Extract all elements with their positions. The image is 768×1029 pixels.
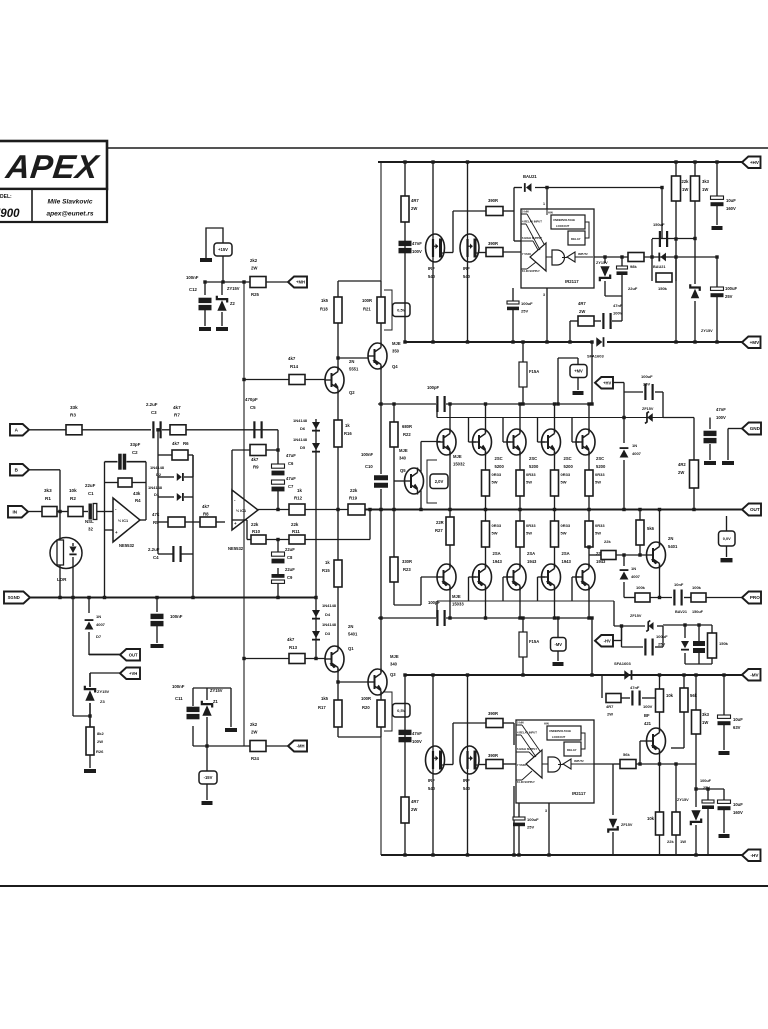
driver MJE15032: [437, 429, 456, 455]
svg-text:D5: D5: [300, 445, 306, 450]
emitter resistor 0R33 top #1: [482, 470, 490, 496]
zener ZY15V right: [691, 289, 700, 299]
IC IR2117 top box: [521, 209, 594, 288]
svg-text:100nF: 100nF: [186, 275, 199, 280]
resistor 3k3 1W bottom: [692, 710, 701, 734]
svg-text:F15A: F15A: [529, 639, 539, 644]
svg-text:LDR: LDR: [57, 577, 67, 582]
svg-text:R16: R16: [344, 431, 352, 436]
zener ZF15V bottom left: [612, 764, 614, 815]
capacitor 100uF 25V bias: [624, 391, 643, 393]
svg-text:ZF15V: ZF15V: [642, 407, 654, 411]
diode D2: [177, 473, 182, 481]
resistor R8: [200, 517, 216, 527]
svg-text:4k7: 4k7: [173, 405, 181, 410]
svg-text:22R: 22R: [436, 520, 444, 525]
svg-text:BAU21: BAU21: [523, 174, 537, 179]
svg-text:10uF: 10uF: [733, 802, 743, 807]
PRO wire: [624, 597, 635, 599]
svg-text:Q1: Q1: [348, 646, 354, 651]
svg-text:HIN: HIN: [544, 722, 549, 726]
capacitor 22uF: [621, 257, 623, 266]
svg-text:5551: 5551: [349, 367, 359, 372]
-HV mini tag: [595, 635, 613, 647]
column 4R7 bottom: [404, 675, 406, 855]
svg-text:25V: 25V: [643, 382, 650, 387]
svg-text:4 RELAY INPUT: 4 RELAY INPUT: [522, 220, 542, 224]
svg-text:47nF: 47nF: [716, 407, 726, 412]
svg-text:1N4148: 1N4148: [150, 465, 165, 470]
-15V box: [206, 746, 208, 771]
wire collector rail to +MV: [591, 342, 593, 404]
+MV rail: [405, 341, 593, 343]
wire minus in: [231, 499, 233, 501]
wire -MH: [193, 745, 250, 747]
svg-text:100pF: 100pF: [427, 385, 440, 390]
capacitor 47nF 100V bottom: [399, 730, 412, 735]
svg-text:2W: 2W: [251, 266, 258, 271]
svg-text:1: 1: [543, 202, 545, 206]
svg-text:IR2117: IR2117: [572, 791, 586, 796]
svg-text:4007: 4007: [631, 574, 641, 579]
feedback wire: [247, 539, 251, 541]
svg-text:R27: R27: [435, 528, 443, 533]
resistor 4R7 2W mid: [570, 320, 578, 322]
wire ladder left: [157, 430, 159, 554]
svg-text:-15V: -15V: [204, 775, 213, 780]
svg-text:33k: 33k: [70, 405, 78, 410]
svg-text:IR2117: IR2117: [565, 279, 579, 284]
wire from SGND to Z3: [73, 715, 90, 717]
diode ladder D6 D5: [315, 419, 317, 598]
svg-text:680R: 680R: [402, 424, 412, 429]
transistor Q1: [325, 646, 344, 672]
svg-text:+HV: +HV: [750, 160, 760, 165]
svg-text:C3: C3: [151, 410, 157, 415]
svg-text:3k3: 3k3: [702, 712, 710, 717]
svg-text:R19: R19: [349, 496, 358, 501]
fuse F15A top: [522, 342, 524, 362]
svg-text:0R33: 0R33: [561, 472, 571, 477]
svg-text:5W: 5W: [595, 531, 601, 536]
resistor 22k 1W lower: [675, 764, 677, 812]
svg-text:1N: 1N: [632, 443, 637, 448]
svg-text:1k5: 1k5: [321, 696, 329, 701]
svg-text:22k: 22k: [682, 179, 690, 184]
svg-text:1N4148: 1N4148: [293, 437, 308, 442]
svg-text:2W: 2W: [97, 739, 103, 744]
resistor 390R lower: [486, 248, 503, 257]
capacitor C1: [89, 504, 92, 520]
capacitor C2: [118, 454, 122, 470]
wire Q5 collector to driver base: [421, 441, 441, 443]
wire Q4 collector down: [380, 366, 382, 405]
svg-text:540: 540: [428, 786, 436, 791]
svg-text:5k6: 5k6: [647, 526, 655, 531]
svg-text:R15: R15: [322, 568, 330, 573]
svg-text:PRO: PRO: [750, 595, 760, 600]
base rail top: [437, 417, 663, 419]
diode SFA1603 bottom: [624, 670, 630, 680]
svg-text:5401: 5401: [668, 544, 678, 549]
svg-text:2,0V: 2,0V: [435, 479, 444, 484]
mosfet IRF540 #2: [467, 162, 469, 234]
svg-text:2N: 2N: [668, 536, 673, 541]
wire ladder right: [192, 455, 194, 598]
svg-text:0R33: 0R33: [492, 523, 502, 528]
resistor 10k lower: [659, 764, 661, 812]
svg-text:22k: 22k: [251, 522, 259, 527]
svg-text:100k: 100k: [636, 585, 646, 590]
svg-text:2.2uF: 2.2uF: [146, 402, 158, 407]
svg-text:R17: R17: [318, 705, 326, 710]
diode D1: [177, 493, 182, 501]
svg-text:R3: R3: [70, 413, 76, 418]
svg-text:56k: 56k: [623, 752, 630, 757]
wire LED cathode: [72, 568, 74, 716]
collector rail top: [378, 403, 436, 405]
capacitor C6: [272, 464, 285, 468]
IC IR2117 bottom box: [516, 720, 594, 803]
svg-text:R11: R11: [292, 529, 300, 534]
capacitor 150uF: [651, 239, 653, 281]
capacitor C12: [204, 282, 206, 295]
svg-text:MODEL:: MODEL:: [0, 194, 12, 200]
svg-text:R6: R6: [183, 441, 189, 446]
svg-text:MJE: MJE: [453, 454, 462, 459]
svg-text:0R33: 0R33: [526, 523, 536, 528]
svg-text:1k: 1k: [325, 560, 330, 565]
svg-text:25V: 25V: [521, 309, 528, 314]
mosfet IRF540 #1: [432, 162, 434, 234]
svg-text:R9: R9: [253, 465, 259, 470]
svg-text:2SA: 2SA: [527, 551, 535, 556]
mosfet IRF540 #3: [432, 675, 434, 746]
svg-text:Mile Slavkovic: Mile Slavkovic: [47, 199, 92, 206]
svg-text:IN: IN: [13, 509, 18, 514]
svg-text:0R33: 0R33: [595, 472, 605, 477]
svg-text:2W: 2W: [411, 807, 417, 812]
resistor R14: [244, 379, 289, 381]
wire bootstrap: [513, 188, 515, 242]
capacitor 100uF 25V bias bottom: [621, 626, 623, 647]
svg-text:0R33: 0R33: [526, 472, 536, 477]
svg-text:100nF: 100nF: [361, 452, 374, 457]
capacitor 150uF bottom: [693, 641, 705, 646]
svg-text:2.2uF: 2.2uF: [148, 547, 160, 552]
svg-text:22k: 22k: [350, 488, 358, 493]
resistor 3k3 1W: [694, 162, 696, 176]
wire BF421 emitter: [659, 712, 661, 732]
op-amp IC1b: [232, 490, 258, 530]
svg-text:C9: C9: [287, 575, 293, 580]
capacitor 100uF 25V right: [716, 257, 718, 287]
svg-text:100k: 100k: [692, 585, 702, 590]
emitter resistor 0R33 top #4: [585, 470, 593, 496]
svg-text:ZY15V: ZY15V: [97, 689, 110, 694]
gate wire upper bottom: [453, 722, 486, 724]
svg-text:R21: R21: [363, 307, 371, 312]
svg-text:UNDERVOLTAGE: UNDERVOLTAGE: [549, 729, 571, 733]
svg-text:R22: R22: [403, 432, 411, 437]
wire: [162, 429, 170, 431]
zener ZY15V bottom: [691, 810, 700, 820]
svg-text:5200: 5200: [529, 464, 539, 469]
rail R18 R21 top: [338, 280, 381, 282]
terminal B: [10, 464, 29, 476]
resistor R10: [251, 535, 266, 544]
svg-text:5W: 5W: [561, 531, 567, 536]
resistor 22k prot: [601, 551, 616, 560]
svg-text:22k: 22k: [667, 839, 674, 844]
resistor 4R2 2W: [693, 418, 695, 461]
svg-text:150uF: 150uF: [692, 610, 704, 614]
resistor 150k: [656, 273, 672, 282]
resistor 4R7 2W: [401, 196, 409, 222]
svg-text:100uF: 100uF: [700, 779, 712, 783]
svg-text:2SC: 2SC: [495, 456, 503, 461]
output transistor 2SA1943 #1: [473, 564, 492, 590]
diode BAU21 top: [514, 187, 522, 189]
svg-text:BF: BF: [644, 713, 650, 718]
svg-text:1N4148: 1N4148: [293, 418, 308, 423]
zener ZF15V bias bottom: [649, 622, 654, 630]
svg-text:25V: 25V: [725, 294, 733, 299]
svg-text:R8: R8: [203, 512, 209, 517]
svg-text:1N4148: 1N4148: [322, 622, 337, 627]
svg-text:C5: C5: [250, 405, 256, 410]
svg-text:R2: R2: [70, 496, 76, 501]
wire Q1 collector node: [337, 669, 339, 701]
resistor 98k: [628, 253, 644, 262]
svg-text:390R: 390R: [488, 753, 498, 758]
op-amp IC1a: [113, 498, 140, 542]
svg-text:2SA: 2SA: [562, 551, 570, 556]
output transistor 2SC5200 #4: [576, 429, 595, 455]
wire Q3 emitter: [380, 692, 382, 701]
svg-text:D1: D1: [154, 492, 160, 497]
svg-text:4007: 4007: [96, 622, 106, 627]
svg-text:4k7: 4k7: [202, 504, 210, 509]
svg-text:22uF: 22uF: [628, 286, 638, 291]
svg-text:100nF: 100nF: [170, 614, 183, 619]
svg-text:470pF: 470pF: [245, 397, 258, 402]
svg-text:5 hIN: 5 hIN: [522, 210, 529, 214]
svg-text:4R7: 4R7: [411, 198, 419, 203]
wire A-path into IC1b: [251, 429, 278, 431]
svg-text:ZY15V: ZY15V: [227, 286, 240, 291]
resistor R18: [334, 297, 342, 323]
svg-text:ZF15V: ZF15V: [621, 823, 633, 827]
capacitor C7: [272, 480, 285, 484]
svg-text:3: 3: [543, 293, 545, 297]
svg-text:MJE: MJE: [390, 654, 399, 659]
svg-text:340: 340: [399, 456, 407, 461]
svg-text:R24: R24: [251, 756, 259, 761]
wire opamp1 + input: [105, 529, 114, 531]
resistor 390R upper: [486, 207, 503, 216]
page border bottom: [0, 885, 768, 887]
terminal SGND: [4, 592, 30, 604]
svg-text:1N4148: 1N4148: [322, 603, 337, 608]
column 4R7 top: [404, 162, 406, 342]
svg-text:98k: 98k: [630, 264, 637, 269]
0,0V test point: [726, 516, 728, 531]
svg-text:1943: 1943: [527, 559, 537, 564]
svg-text:5 hIN: 5 hIN: [517, 721, 524, 725]
resistor R15: [337, 510, 339, 561]
svg-text:350: 350: [392, 349, 400, 354]
terminal OUT left: [89, 654, 120, 656]
svg-text:5200: 5200: [564, 464, 574, 469]
capacitor 100nF on SGND: [156, 598, 158, 613]
svg-text:100uF: 100uF: [641, 374, 653, 379]
IR2117 output wire bottom: [594, 763, 614, 765]
wire -HV drop: [380, 737, 382, 855]
APEX logo: [3, 149, 102, 186]
svg-text:IRF: IRF: [428, 266, 435, 271]
svg-text:8 LIN SUPPLY: 8 LIN SUPPLY: [517, 780, 535, 784]
svg-text:150k: 150k: [658, 286, 668, 291]
transistor Q3: [368, 669, 387, 695]
svg-text:ZY15V: ZY15V: [677, 798, 689, 802]
base rail jog bottom: [613, 601, 615, 626]
wire: [277, 430, 279, 450]
svg-text:MJE: MJE: [452, 594, 461, 599]
svg-text:-MV: -MV: [750, 672, 759, 677]
svg-text:1W: 1W: [682, 187, 688, 192]
svg-text:ZY15V: ZY15V: [210, 688, 223, 693]
svg-text:5W: 5W: [526, 480, 532, 485]
svg-text:R20: R20: [362, 705, 370, 710]
svg-text:5200: 5200: [495, 464, 505, 469]
gate wire lower bottom: [479, 764, 486, 766]
terminal GND: [742, 423, 761, 435]
svg-text:½ IC1: ½ IC1: [118, 519, 128, 523]
resistor R19: [348, 504, 365, 515]
collector rail bottom: [378, 617, 436, 619]
svg-text:R4: R4: [135, 498, 141, 503]
capacitor 100uF 25V lower right: [707, 789, 709, 800]
svg-text:C4: C4: [153, 555, 159, 560]
resistor R2: [68, 507, 83, 517]
svg-text:47nF: 47nF: [412, 241, 422, 246]
wire Q5 vertical: [420, 442, 422, 472]
svg-text:150k: 150k: [719, 641, 729, 646]
resistor 390R lower bottom: [486, 760, 503, 769]
svg-text:ZY15V: ZY15V: [596, 261, 608, 265]
svg-text:2N: 2N: [348, 624, 353, 629]
svg-text:D3: D3: [325, 631, 331, 636]
svg-text:NE5532: NE5532: [228, 546, 244, 551]
svg-text:DELAY: DELAY: [567, 748, 577, 752]
svg-text:540: 540: [428, 274, 436, 279]
svg-text:+15V: +15V: [218, 247, 228, 252]
terminal IN: [8, 506, 28, 518]
svg-text:APEX: APEX: [3, 149, 102, 186]
svg-text:15033: 15033: [452, 602, 464, 607]
BF421 base riser: [639, 741, 641, 764]
svg-text:R13: R13: [289, 645, 298, 650]
svg-text:+MV: +MV: [574, 369, 583, 374]
IR2117 output wire: [594, 256, 628, 258]
svg-text:R18: R18: [320, 307, 328, 312]
zobel 47nF: [663, 417, 694, 419]
zener Z2: [221, 282, 223, 295]
svg-text:22k: 22k: [291, 522, 299, 527]
wire BF421 collector: [659, 751, 661, 765]
svg-text:1W: 1W: [702, 720, 708, 725]
zener ZY15V block top: [604, 257, 606, 263]
svg-text:2SC: 2SC: [596, 456, 604, 461]
diode BAV21 bottom: [684, 625, 686, 638]
svg-text:0R33: 0R33: [492, 472, 502, 477]
output transistor 2SA1943 #4: [576, 564, 595, 590]
+HV rail: [378, 161, 742, 163]
resistor 22k 1W: [675, 162, 677, 176]
diodes D4 D3: [315, 598, 317, 659]
svg-text:GND: GND: [750, 426, 761, 431]
svg-text:10k: 10k: [666, 693, 674, 698]
wire: [663, 624, 712, 626]
svg-text:OUT: OUT: [750, 507, 760, 512]
wire plus in: [232, 519, 247, 521]
svg-text:10nF: 10nF: [674, 582, 684, 587]
terminal +MV: [742, 337, 761, 349]
svg-text:R25: R25: [251, 292, 259, 297]
output transistor 2SC5200 #2: [507, 429, 526, 455]
svg-text:22uF: 22uF: [285, 547, 295, 552]
pin 3 stub bottom: [546, 288, 548, 342]
gate wire upper: [453, 210, 486, 212]
svg-text:2W: 2W: [251, 730, 258, 735]
capacitor 47nF bottom-right: [621, 697, 630, 699]
svg-text:32: 32: [88, 527, 93, 532]
svg-text:47uF: 47uF: [286, 453, 296, 458]
svg-text:25V: 25V: [527, 825, 534, 830]
svg-text:+: +: [115, 530, 118, 535]
wire +MH column: [243, 282, 245, 746]
svg-text:421: 421: [644, 721, 652, 726]
title block logo box: [0, 141, 107, 189]
svg-text:2W: 2W: [411, 206, 417, 211]
svg-text:160V: 160V: [726, 206, 736, 211]
svg-text:H900: H900: [0, 208, 20, 220]
svg-text:Q4: Q4: [392, 364, 398, 369]
svg-text:7 VS30: 7 VS30: [517, 763, 526, 767]
svg-text:LOCKOUT: LOCKOUT: [556, 224, 570, 228]
resistor 10k upper: [656, 689, 664, 712]
LDR optocoupler NSL-32: [50, 538, 82, 569]
svg-text:4 RELAY INPUT: 4 RELAY INPUT: [517, 731, 537, 735]
terminal A: [10, 424, 29, 436]
emitter resistor 0R33 top #2: [516, 470, 524, 496]
svg-text:2W: 2W: [607, 712, 613, 717]
svg-text:390R: 390R: [488, 711, 498, 716]
terminal +VH: [120, 668, 140, 680]
svg-text:8 LIN SUPPLY: 8 LIN SUPPLY: [522, 269, 540, 273]
wire: [83, 511, 88, 513]
svg-text:10uF: 10uF: [726, 198, 736, 203]
svg-text:4R2: 4R2: [678, 462, 686, 467]
svg-text:R7: R7: [174, 413, 180, 418]
svg-text:0R33: 0R33: [561, 523, 571, 528]
svg-text:-MH: -MH: [297, 744, 305, 749]
svg-text:340: 340: [390, 662, 398, 667]
svg-text:5W: 5W: [561, 480, 567, 485]
resistor 4R7 2W bottom-right: [601, 675, 603, 698]
wire bias loop: [662, 392, 664, 418]
